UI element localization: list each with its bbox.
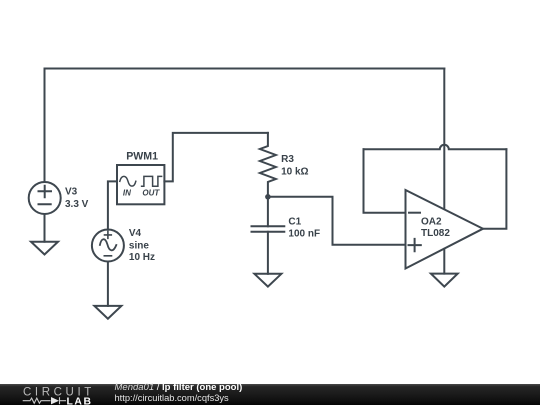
block PWM1 [117,165,164,204]
wire: op-amp V- stem [443,249,445,274]
footer text line 1 [115,383,243,393]
wire: feedback right drop [483,149,506,228]
voltage source V4 [92,230,124,262]
svg-text:PWM1: PWM1 [126,150,158,162]
wire: feedback top with hop [364,145,507,149]
wire: PWM1 OUT to R3 top [164,133,268,182]
op-amp minus pin mark [409,212,420,214]
wire: node to C1 [267,197,269,227]
svg-text:10 kΩ: 10 kΩ [281,166,308,177]
ground (C1) [254,274,281,287]
svg-text:OA2: OA2 [421,217,442,228]
wire: V3 top riser [44,69,46,183]
svg-text:3.3 V: 3.3 V [65,199,89,210]
footer bar [0,384,540,405]
svg-text:V3: V3 [65,186,78,197]
wire: V3 bottom stem [44,214,46,242]
wire: PWM1 IN lead to V4 [108,181,117,229]
svg-text:100 nF: 100 nF [288,229,320,240]
op-amp plus pin mark [409,239,421,251]
PWM1 square icon [142,176,162,186]
PWM1 sine icon [120,176,136,186]
svg-text:LAB: LAB [67,396,92,405]
svg-text:OUT: OUT [142,188,160,197]
ground (V3) [31,242,58,255]
svg-text:10 Hz: 10 Hz [129,252,155,263]
svg-text:IN: IN [123,188,131,197]
wire: C1 bottom stem [267,232,269,274]
op-amp OA2 [406,190,484,269]
ground (V4) [94,306,121,319]
svg-text:V4: V4 [129,228,142,239]
V4 sine symbol [100,239,116,250]
wire: V4 bottom stem [107,262,109,306]
svg-text:TL082: TL082 [421,228,450,239]
svg-text:C1: C1 [288,216,301,227]
CircuitLab logo [0,0,110,21]
resistor R3 [260,133,276,197]
wire: op-amp - input [364,149,406,212]
footer text line 2 [115,394,229,403]
voltage source V3 [29,182,61,214]
capacitor C1 [252,226,285,232]
node: R3/C1 junction [265,194,271,200]
wire: top horizontal rail [45,68,445,70]
svg-text:R3: R3 [281,154,294,165]
wire: op-amp V+ drop [443,69,445,210]
ground (op-amp) [431,274,458,287]
wire: node to op-amp + input [268,197,406,245]
svg-text:sine: sine [129,240,149,251]
